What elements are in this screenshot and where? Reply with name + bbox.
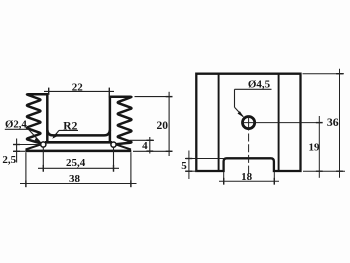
svg-text:2,5: 2,5 [2,154,16,166]
svg-text:20: 20 [157,120,169,132]
svg-text:4: 4 [142,140,148,152]
svg-text:Ø2,4: Ø2,4 [5,118,27,130]
svg-text:18: 18 [241,171,253,183]
svg-text:5: 5 [181,160,187,172]
svg-text:22: 22 [72,81,84,93]
svg-text:36: 36 [327,115,339,129]
svg-text:25,4: 25,4 [66,157,86,169]
svg-text:Ø4,5: Ø4,5 [248,79,271,91]
svg-text:19: 19 [309,141,321,153]
svg-text:R2: R2 [63,121,77,133]
svg-text:38: 38 [69,173,81,185]
